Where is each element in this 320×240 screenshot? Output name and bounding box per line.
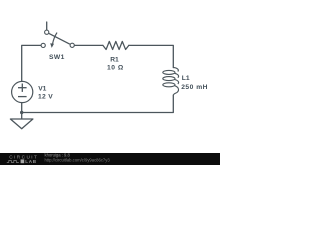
inductor L1	[163, 67, 179, 95]
ground	[10, 119, 33, 129]
wire resistor to top-right corner and down	[129, 45, 174, 67]
wire inductor bottom to corner	[22, 95, 174, 112]
V1 plus sign	[18, 87, 27, 89]
SW1 toggle arrow	[53, 33, 57, 44]
CircuitLab logo LAB	[21, 159, 25, 163]
SW1 top terminal circle	[45, 30, 49, 34]
SW1 right terminal circle	[70, 43, 74, 47]
SW1 top throw stub	[46, 22, 48, 30]
wire top-left rail	[22, 45, 41, 81]
switch SW1	[41, 22, 74, 48]
node junction dot	[20, 111, 23, 114]
svg-text:http://circuitlab.com/c/9y9ac8: http://circuitlab.com/c/9y9ac86c7y3	[45, 157, 111, 162]
svg-text:LAB: LAB	[25, 159, 37, 164]
SW1 left terminal circle	[41, 43, 45, 47]
wire switch to resistor	[75, 44, 103, 46]
SW1 lever	[49, 33, 70, 44]
wire node to ground	[21, 113, 23, 120]
wire V1 bottom to node	[21, 103, 23, 113]
watermark bar	[0, 153, 220, 166]
resistor R1	[103, 41, 129, 49]
V1 minus sign	[18, 96, 27, 98]
CircuitLab logo waveform	[7, 161, 19, 163]
voltage source V1	[12, 81, 33, 102]
